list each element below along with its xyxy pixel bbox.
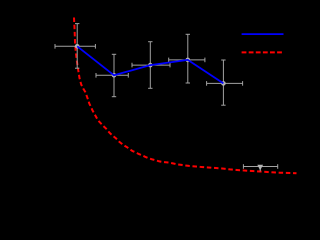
legend blue solid line [242, 33, 284, 35]
blue data line [77, 46, 223, 83]
point 4 error bars [169, 34, 205, 83]
data point markers [75, 44, 263, 170]
legend red dashed line [242, 51, 284, 53]
red dashed model curve [74, 18, 297, 174]
point 6 (upper limit) error bar [243, 164, 277, 171]
point 2 error bars [96, 54, 128, 96]
point 1 error bars [55, 24, 95, 69]
upper limit arrow head [257, 165, 263, 171]
error bars [55, 24, 278, 172]
point 5 error bars [207, 60, 243, 105]
point 3 error bars [132, 42, 170, 89]
